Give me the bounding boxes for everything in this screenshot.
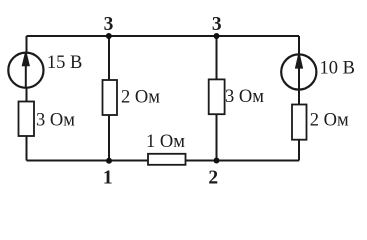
svg-text:3 Ом: 3 Ом — [36, 111, 75, 131]
svg-text:1 Ом: 1 Ом — [146, 132, 185, 152]
svg-text:3: 3 — [104, 14, 114, 35]
svg-text:2 Ом: 2 Ом — [121, 87, 160, 107]
svg-text:3: 3 — [212, 14, 222, 35]
svg-text:15 В: 15 В — [47, 53, 82, 73]
svg-text:2: 2 — [208, 168, 218, 189]
svg-text:10 В: 10 В — [320, 59, 355, 79]
svg-text:1: 1 — [103, 168, 113, 189]
svg-text:2 Ом: 2 Ом — [310, 110, 349, 130]
svg-text:3 Ом: 3 Ом — [225, 87, 264, 107]
